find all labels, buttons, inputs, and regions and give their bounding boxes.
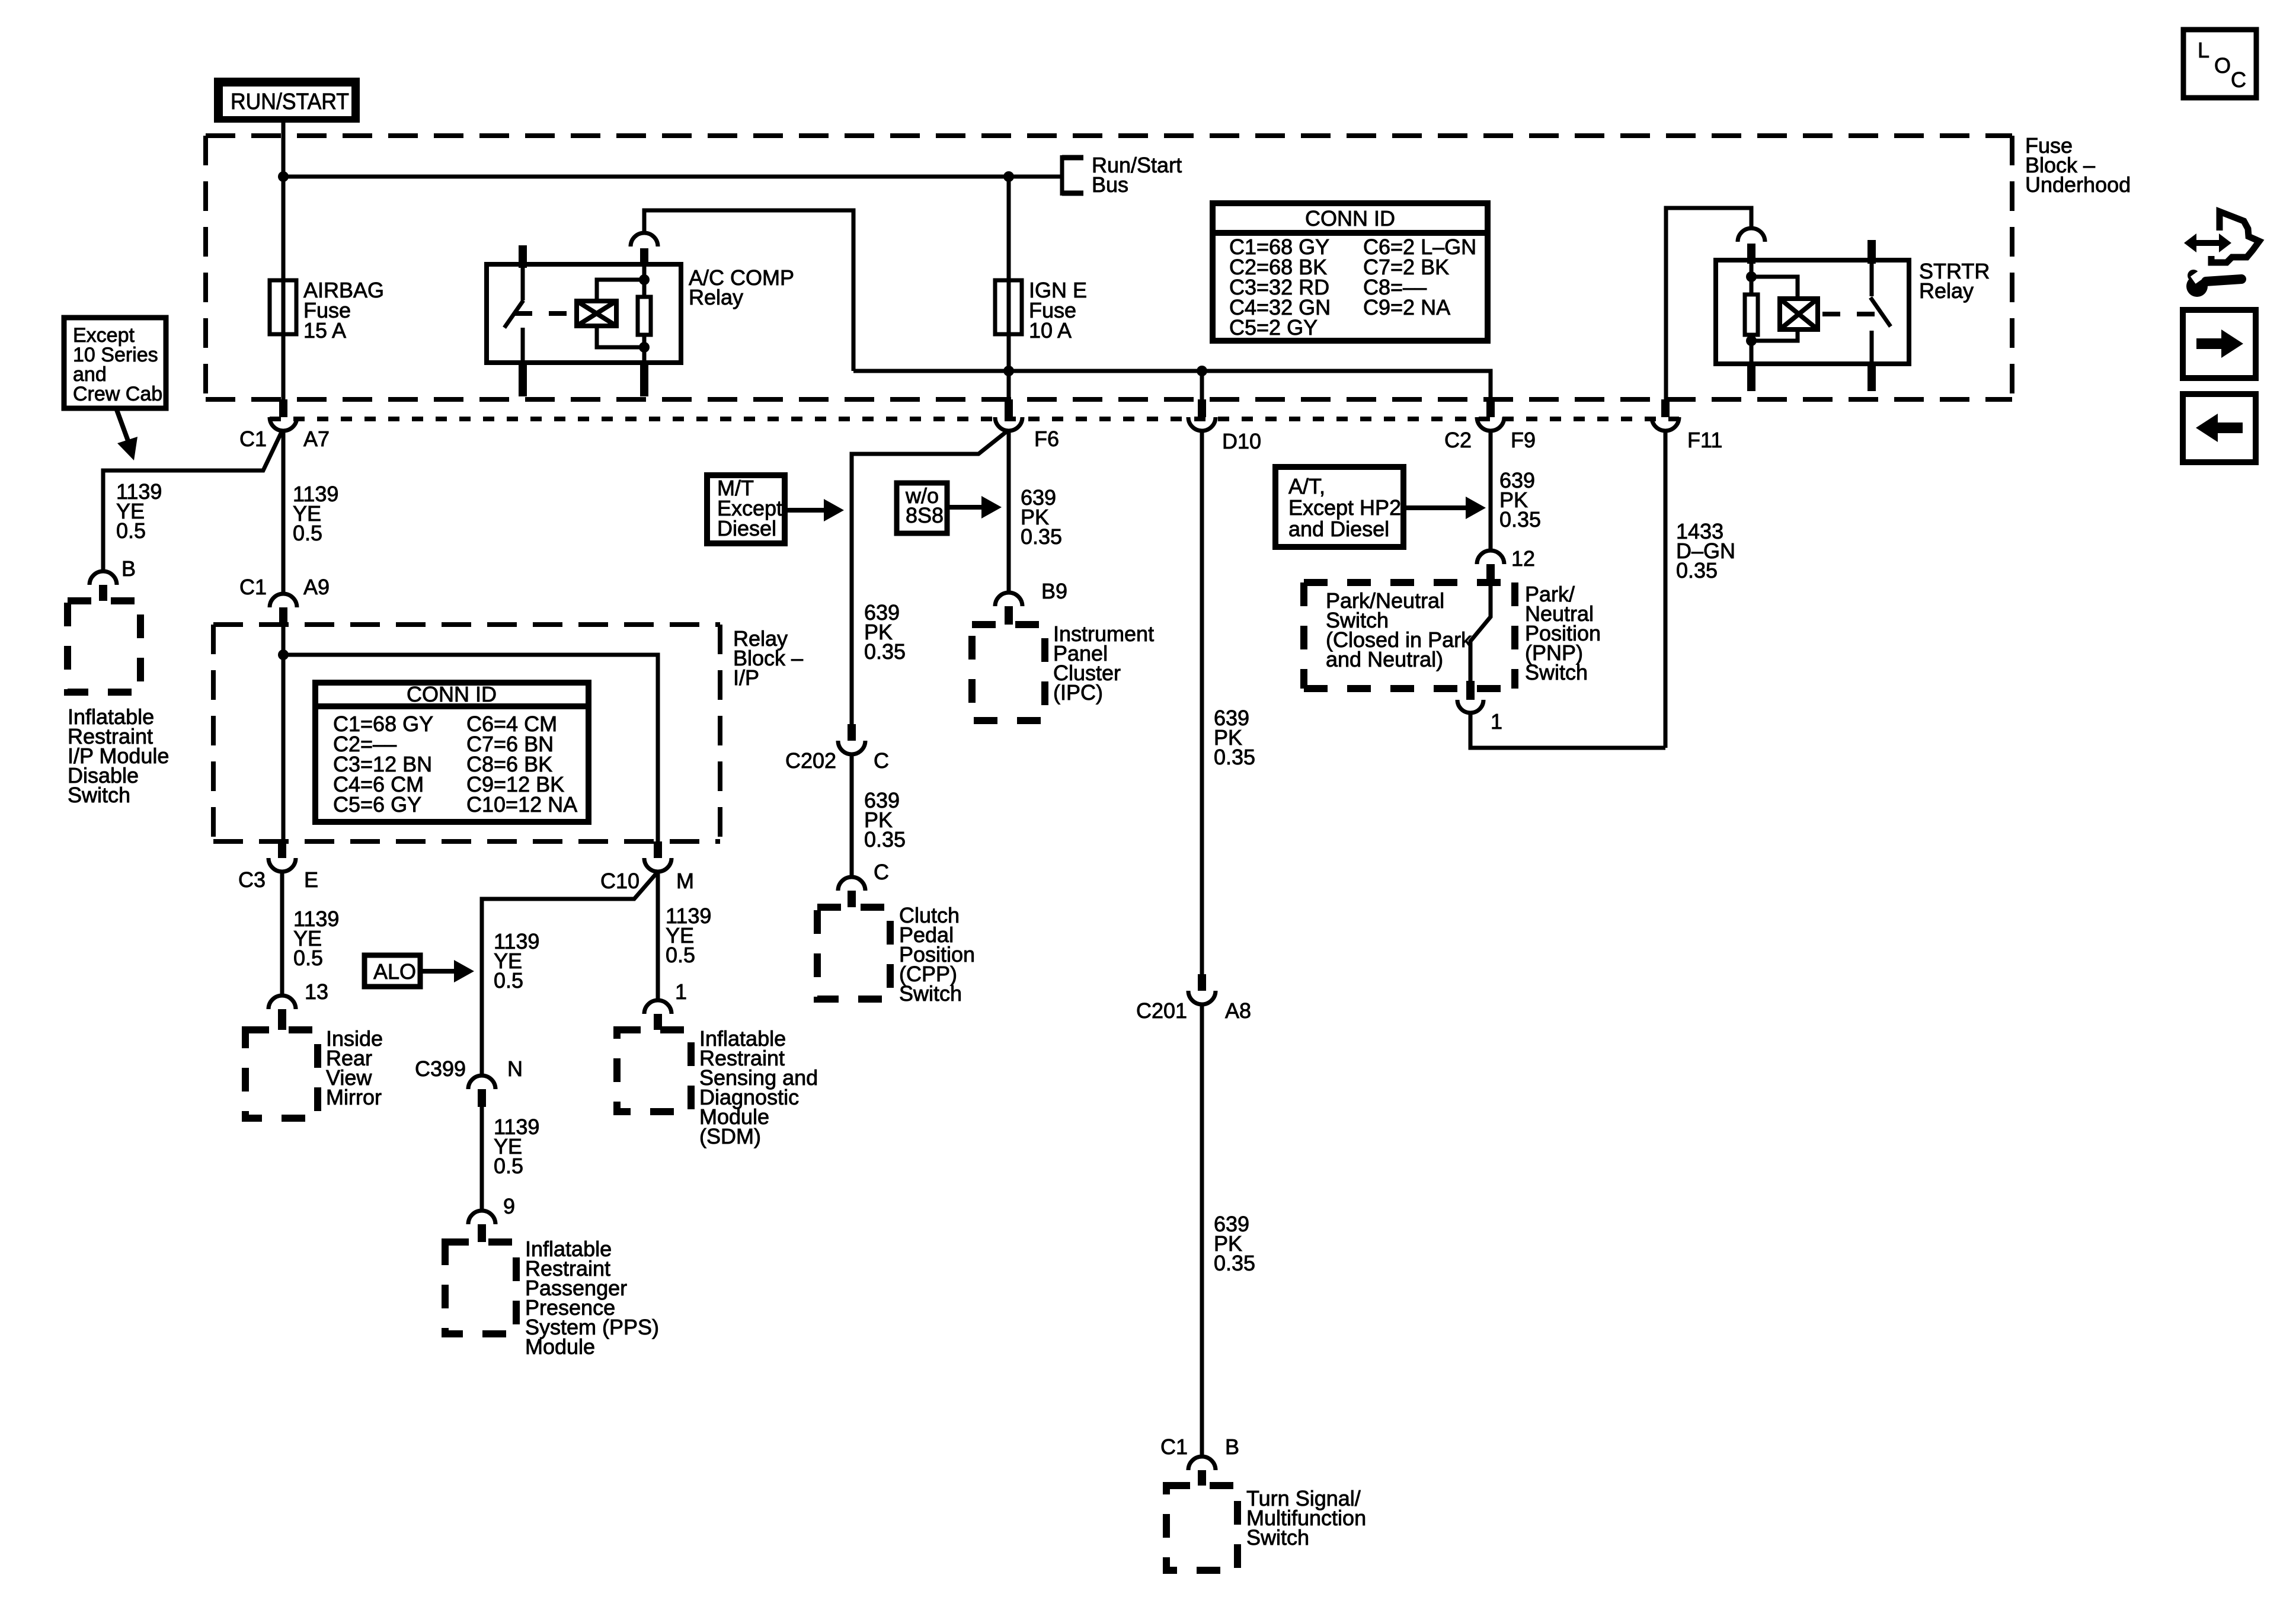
svg-text:0.5: 0.5 [494, 1154, 523, 1178]
svg-text:Switch: Switch [68, 783, 130, 807]
connector C1 pin A7 [270, 399, 297, 431]
svg-text:CONN ID: CONN ID [1305, 206, 1395, 231]
svg-text:8S8: 8S8 [906, 503, 944, 527]
svg-text:Switch: Switch [1525, 660, 1588, 684]
wire C2 F9 to pin 12 [1489, 431, 1493, 552]
junction run/start bus tap [278, 171, 289, 182]
svg-text:Crew Cab: Crew Cab [73, 383, 162, 405]
wire F11 down [1664, 431, 1668, 748]
wire relay block to C10 M [283, 655, 658, 841]
connector D10 [1188, 371, 1216, 431]
node RUN/START power label [214, 78, 360, 123]
svg-text:C10: C10 [600, 869, 639, 893]
connector C10 pin M [644, 841, 671, 872]
PPS module box [445, 1242, 516, 1334]
svg-text:B9: B9 [1041, 579, 1067, 603]
svg-text:C5=2 GY: C5=2 GY [1229, 315, 1318, 340]
relay A/C COMP box [487, 264, 681, 363]
svg-text:C1: C1 [239, 427, 267, 451]
connector pin 9 [468, 1211, 495, 1242]
run/start bus tap bracket [1062, 155, 1083, 196]
svg-text:(SDM): (SDM) [699, 1124, 761, 1148]
svg-text:C1: C1 [239, 575, 267, 599]
svg-text:ALO: ALO [373, 959, 416, 984]
wire bus down to IGN E fuse [1007, 177, 1011, 280]
wire F6 to B9 [1007, 431, 1011, 593]
junction IGN E wire [1003, 366, 1014, 376]
svg-text:C: C [874, 748, 889, 773]
svg-text:RUN/START: RUN/START [231, 89, 349, 114]
svg-text:C3: C3 [238, 868, 266, 892]
junction D10 wire [1197, 366, 1207, 376]
fuse block CONN ID entries [1229, 235, 1476, 340]
svg-text:0.35: 0.35 [1214, 1251, 1255, 1275]
label 639 PK 0.35 (D10 upper) [1214, 706, 1255, 769]
svg-text:C10=12 NA: C10=12 NA [466, 792, 577, 817]
connector pin C (CPP) [838, 877, 865, 907]
svg-text:13: 13 [305, 980, 328, 1004]
wire C1 A7 to C1 A9 [282, 431, 286, 594]
svg-text:1: 1 [675, 980, 687, 1004]
label Instrument Panel Cluster (IPC) [1053, 622, 1154, 705]
wire A9 through relay block [282, 625, 286, 841]
connector C1 pin A9 [270, 594, 297, 626]
svg-text:F11: F11 [1687, 428, 1722, 452]
wire run/start bus [283, 175, 1061, 179]
CPP switch box [817, 907, 890, 999]
label Park/Neutral Position (PNP) Switch [1525, 582, 1601, 684]
svg-text:1: 1 [1491, 709, 1502, 734]
icon previous page (left arrow box) [2183, 394, 2256, 462]
wire C202 to CPP [850, 754, 854, 877]
svg-text:M: M [676, 869, 694, 893]
park/neutral switch label box [1304, 582, 1515, 689]
connector C201 pin A8 [1188, 974, 1216, 1004]
svg-text:0.35: 0.35 [1676, 558, 1718, 582]
wire IGN E fuse to F6 [1007, 334, 1011, 399]
svg-text:Except HP2: Except HP2 [1288, 495, 1401, 520]
svg-text:B: B [1225, 1435, 1239, 1459]
wire C10 M to SDM [656, 872, 660, 1000]
label box ALO [364, 955, 420, 987]
fuse IGN E 10 A [995, 280, 1022, 334]
A/C relay top pin connector [631, 233, 658, 265]
connector F11 [1652, 399, 1679, 431]
svg-text:O: O [2214, 53, 2231, 78]
icon next page (right arrow box) [2183, 310, 2256, 378]
wire fuse to C1 A7 [282, 334, 286, 399]
svg-text:Switch: Switch [1246, 1525, 1309, 1550]
svg-text:Switch: Switch [899, 981, 962, 1006]
connector C3 pin E [268, 841, 296, 872]
A/C relay coil [577, 301, 616, 326]
STRTR relay pin connector [1738, 228, 1765, 264]
svg-text:0.35: 0.35 [1499, 507, 1541, 532]
arrow from except box [116, 408, 137, 460]
wire F6 to C202 [852, 431, 1008, 724]
label 639 PK 0.35 (D10 lower) [1214, 1212, 1255, 1275]
svg-text:F6: F6 [1034, 427, 1059, 451]
relay block I/P dashed outline [213, 625, 720, 841]
svg-text:and Neutral): and Neutral) [1326, 647, 1443, 671]
svg-text:Underhood: Underhood [2025, 172, 2131, 197]
svg-text:C202: C202 [785, 748, 836, 773]
svg-text:D10: D10 [1222, 429, 1261, 453]
connector C1 pin B (turn signal) [1188, 1457, 1216, 1486]
label 639 PK 0.35 (F6) [1021, 485, 1062, 549]
connector F6 [995, 399, 1022, 431]
A/C relay bottom stubs [523, 363, 644, 396]
svg-text:C399: C399 [415, 1057, 466, 1081]
fuse block underhood dashed outline [206, 136, 2012, 399]
relay STRTR box [1716, 260, 1909, 364]
label Run/Start Bus [1092, 153, 1182, 197]
label Inflatable Restraint I/P Module Disable Switch [68, 705, 169, 807]
STRTR resistor [1745, 295, 1758, 335]
connector pin 1 (PNP) [1457, 681, 1483, 713]
label 1139 YE 0.5 (SDM) [666, 904, 711, 967]
wire ignition bus to C2 F9 [853, 371, 1491, 399]
label Inflatable Restraint Sensing and Diagnostic Module (SDM) [699, 1026, 818, 1148]
inside rear view mirror box [245, 1030, 318, 1118]
wire C399 to PPS [480, 1107, 484, 1211]
label Park/Neutral Switch (Closed in Park and Neutral) [1326, 588, 1472, 671]
label Turn Signal/Multifunction Switch [1246, 1486, 1366, 1550]
A/C relay switch [504, 268, 523, 363]
connector C399 pin N [468, 1076, 495, 1107]
inflatable restraint I/P module disable switch box [68, 601, 140, 692]
svg-text:C1: C1 [1160, 1435, 1188, 1459]
svg-text:E: E [304, 868, 318, 892]
wire RUN/START feed down to AIRBAG fuse [282, 122, 286, 280]
fuse block CONN ID table [1213, 203, 1488, 341]
label box w/o 8S8 [897, 483, 947, 533]
label STRTR Relay [1919, 259, 1990, 303]
label 1139 YE 0.5 (C399 below) [494, 1115, 539, 1178]
svg-text:Mirror: Mirror [326, 1085, 382, 1109]
wire C201 to C1 B [1200, 1004, 1204, 1457]
label 1139 YE 0.5 (B branch) [116, 479, 162, 543]
wire C3 E to mirror [280, 872, 284, 996]
svg-text:A/T,: A/T, [1288, 474, 1325, 498]
svg-text:Relay: Relay [689, 285, 743, 309]
A/C relay actuation dashed link [514, 311, 577, 316]
svg-text:0.35: 0.35 [864, 639, 906, 664]
arrow ALO [420, 969, 456, 974]
label box A/T Except HP2 and Diesel [1275, 467, 1403, 547]
svg-text:C5=6 GY: C5=6 GY [333, 792, 421, 817]
relay block CONN ID table [315, 682, 589, 822]
svg-text:12: 12 [1511, 546, 1535, 571]
svg-text:Relay: Relay [1919, 279, 1974, 303]
svg-text:0.35: 0.35 [864, 827, 906, 852]
svg-text:Module: Module [525, 1334, 595, 1359]
label 1139 YE 0.5 (C399 above) [494, 929, 539, 993]
label 639 PK 0.35 (M/T) [864, 600, 906, 664]
svg-text:A8: A8 [1225, 998, 1251, 1023]
connector C202 pin C [838, 724, 865, 754]
svg-text:C201: C201 [1136, 998, 1187, 1023]
svg-text:0.5: 0.5 [494, 968, 523, 993]
svg-text:F9: F9 [1511, 428, 1536, 452]
STRTR resistor line + junctions [1746, 264, 1757, 364]
svg-text:0.5: 0.5 [293, 521, 322, 545]
arrow w/o 8S8 [947, 505, 984, 510]
STRTR coil connections [1751, 277, 1798, 341]
connector pin B [89, 571, 117, 601]
svg-text:0.5: 0.5 [666, 943, 695, 967]
dotted connector row (fuse block to harness) [270, 417, 1679, 421]
icon schematic navigation (arrow + outline + wrench) [2184, 212, 2259, 297]
connector pin 1 (SDM) [644, 1000, 671, 1030]
svg-text:0.35: 0.35 [1214, 745, 1255, 769]
label Inflatable Restraint Passenger Presence System (PPS) Module [525, 1237, 659, 1359]
label Inside Rear View Mirror [326, 1026, 383, 1109]
label 639 PK 0.35 (F9) [1499, 468, 1541, 532]
STRTR bottom stubs [1751, 364, 1872, 391]
svg-text:and Diesel: and Diesel [1288, 517, 1389, 541]
svg-text:A7: A7 [303, 427, 330, 451]
A/C relay switch pin top stub [519, 245, 527, 268]
turn signal / multifunction switch box [1166, 1486, 1237, 1570]
label 639 PK 0.35 (C202) [864, 788, 906, 852]
wire C10 M to C399 [482, 872, 658, 1076]
label Fuse Block - Underhood [2025, 133, 2131, 197]
label 1139 YE 0.5 (mirror) [293, 907, 339, 970]
svg-text:N: N [507, 1057, 523, 1081]
connector pin 12 [1477, 550, 1504, 583]
svg-text:I/P: I/P [733, 665, 759, 690]
svg-text:B: B [121, 556, 136, 581]
arrow A/T [1403, 505, 1468, 510]
arrow M/T [785, 508, 826, 513]
relay block CONN ID entries [333, 712, 577, 817]
STRTR actuation dashed link [1822, 312, 1876, 316]
A/C relay resistor [638, 297, 651, 335]
svg-text:CONN ID: CONN ID [407, 682, 497, 706]
label Relay Block - I/P [733, 626, 803, 690]
svg-text:9: 9 [503, 1194, 515, 1218]
svg-text:C: C [874, 860, 889, 884]
svg-text:C: C [2231, 68, 2246, 92]
LOC reference box [2183, 30, 2256, 98]
A/C relay resistor line + junctions [639, 265, 650, 363]
svg-text:Bus: Bus [1092, 172, 1128, 197]
wire A/C relay pin up and over to IGN E feed [644, 210, 853, 371]
label A/C COMP Relay [689, 265, 794, 309]
label AIRBAG Fuse 15 A [303, 278, 384, 343]
STRTR coil [1780, 299, 1818, 329]
svg-text:10 A: 10 A [1029, 318, 1072, 343]
label box M/T Except Diesel [707, 475, 785, 543]
connector pin 13 [268, 996, 296, 1030]
STRTR switch pin top stub [1868, 240, 1876, 264]
label box Except 10 Series and Crew Cab [64, 318, 166, 408]
svg-text:0.5: 0.5 [293, 946, 323, 970]
SDM box [617, 1030, 691, 1112]
wire C1 A7 to B branch [103, 431, 282, 571]
svg-text:C2: C2 [1444, 428, 1472, 452]
connector C2 pin F9 [1477, 399, 1504, 431]
label 1433 D-GN 0.35 [1676, 519, 1735, 582]
svg-text:L: L [2198, 38, 2209, 62]
svg-text:C9=2 NA: C9=2 NA [1363, 295, 1450, 319]
label Clutch Pedal Position (CPP) Switch [899, 903, 975, 1006]
svg-text:0.5: 0.5 [116, 518, 146, 543]
junction IGN E at run/start bus [1003, 171, 1014, 182]
svg-text:15 A: 15 A [303, 318, 346, 343]
label 1139 YE 0.5 (A7 to A9) [293, 482, 338, 545]
wire D10 to C201 [1200, 431, 1204, 974]
connector pin B9 [995, 593, 1022, 625]
junction relay block split [278, 649, 289, 660]
IPC box [972, 625, 1045, 721]
svg-text:(IPC): (IPC) [1053, 680, 1103, 705]
wire STRTR coil pin to F11 drop [1666, 208, 1751, 399]
svg-text:A9: A9 [303, 575, 330, 599]
svg-text:0.35: 0.35 [1021, 524, 1062, 549]
park/neutral switch blade [1470, 583, 1491, 681]
fuse AIRBAG 15 A [270, 280, 296, 334]
label IGN E Fuse 10 A [1029, 278, 1087, 343]
STRTR switch [1870, 260, 1891, 364]
A/C relay coil connections [597, 280, 644, 347]
svg-text:Diesel: Diesel [717, 516, 776, 540]
wire PNP pin 1 to F11 [1470, 713, 1665, 748]
